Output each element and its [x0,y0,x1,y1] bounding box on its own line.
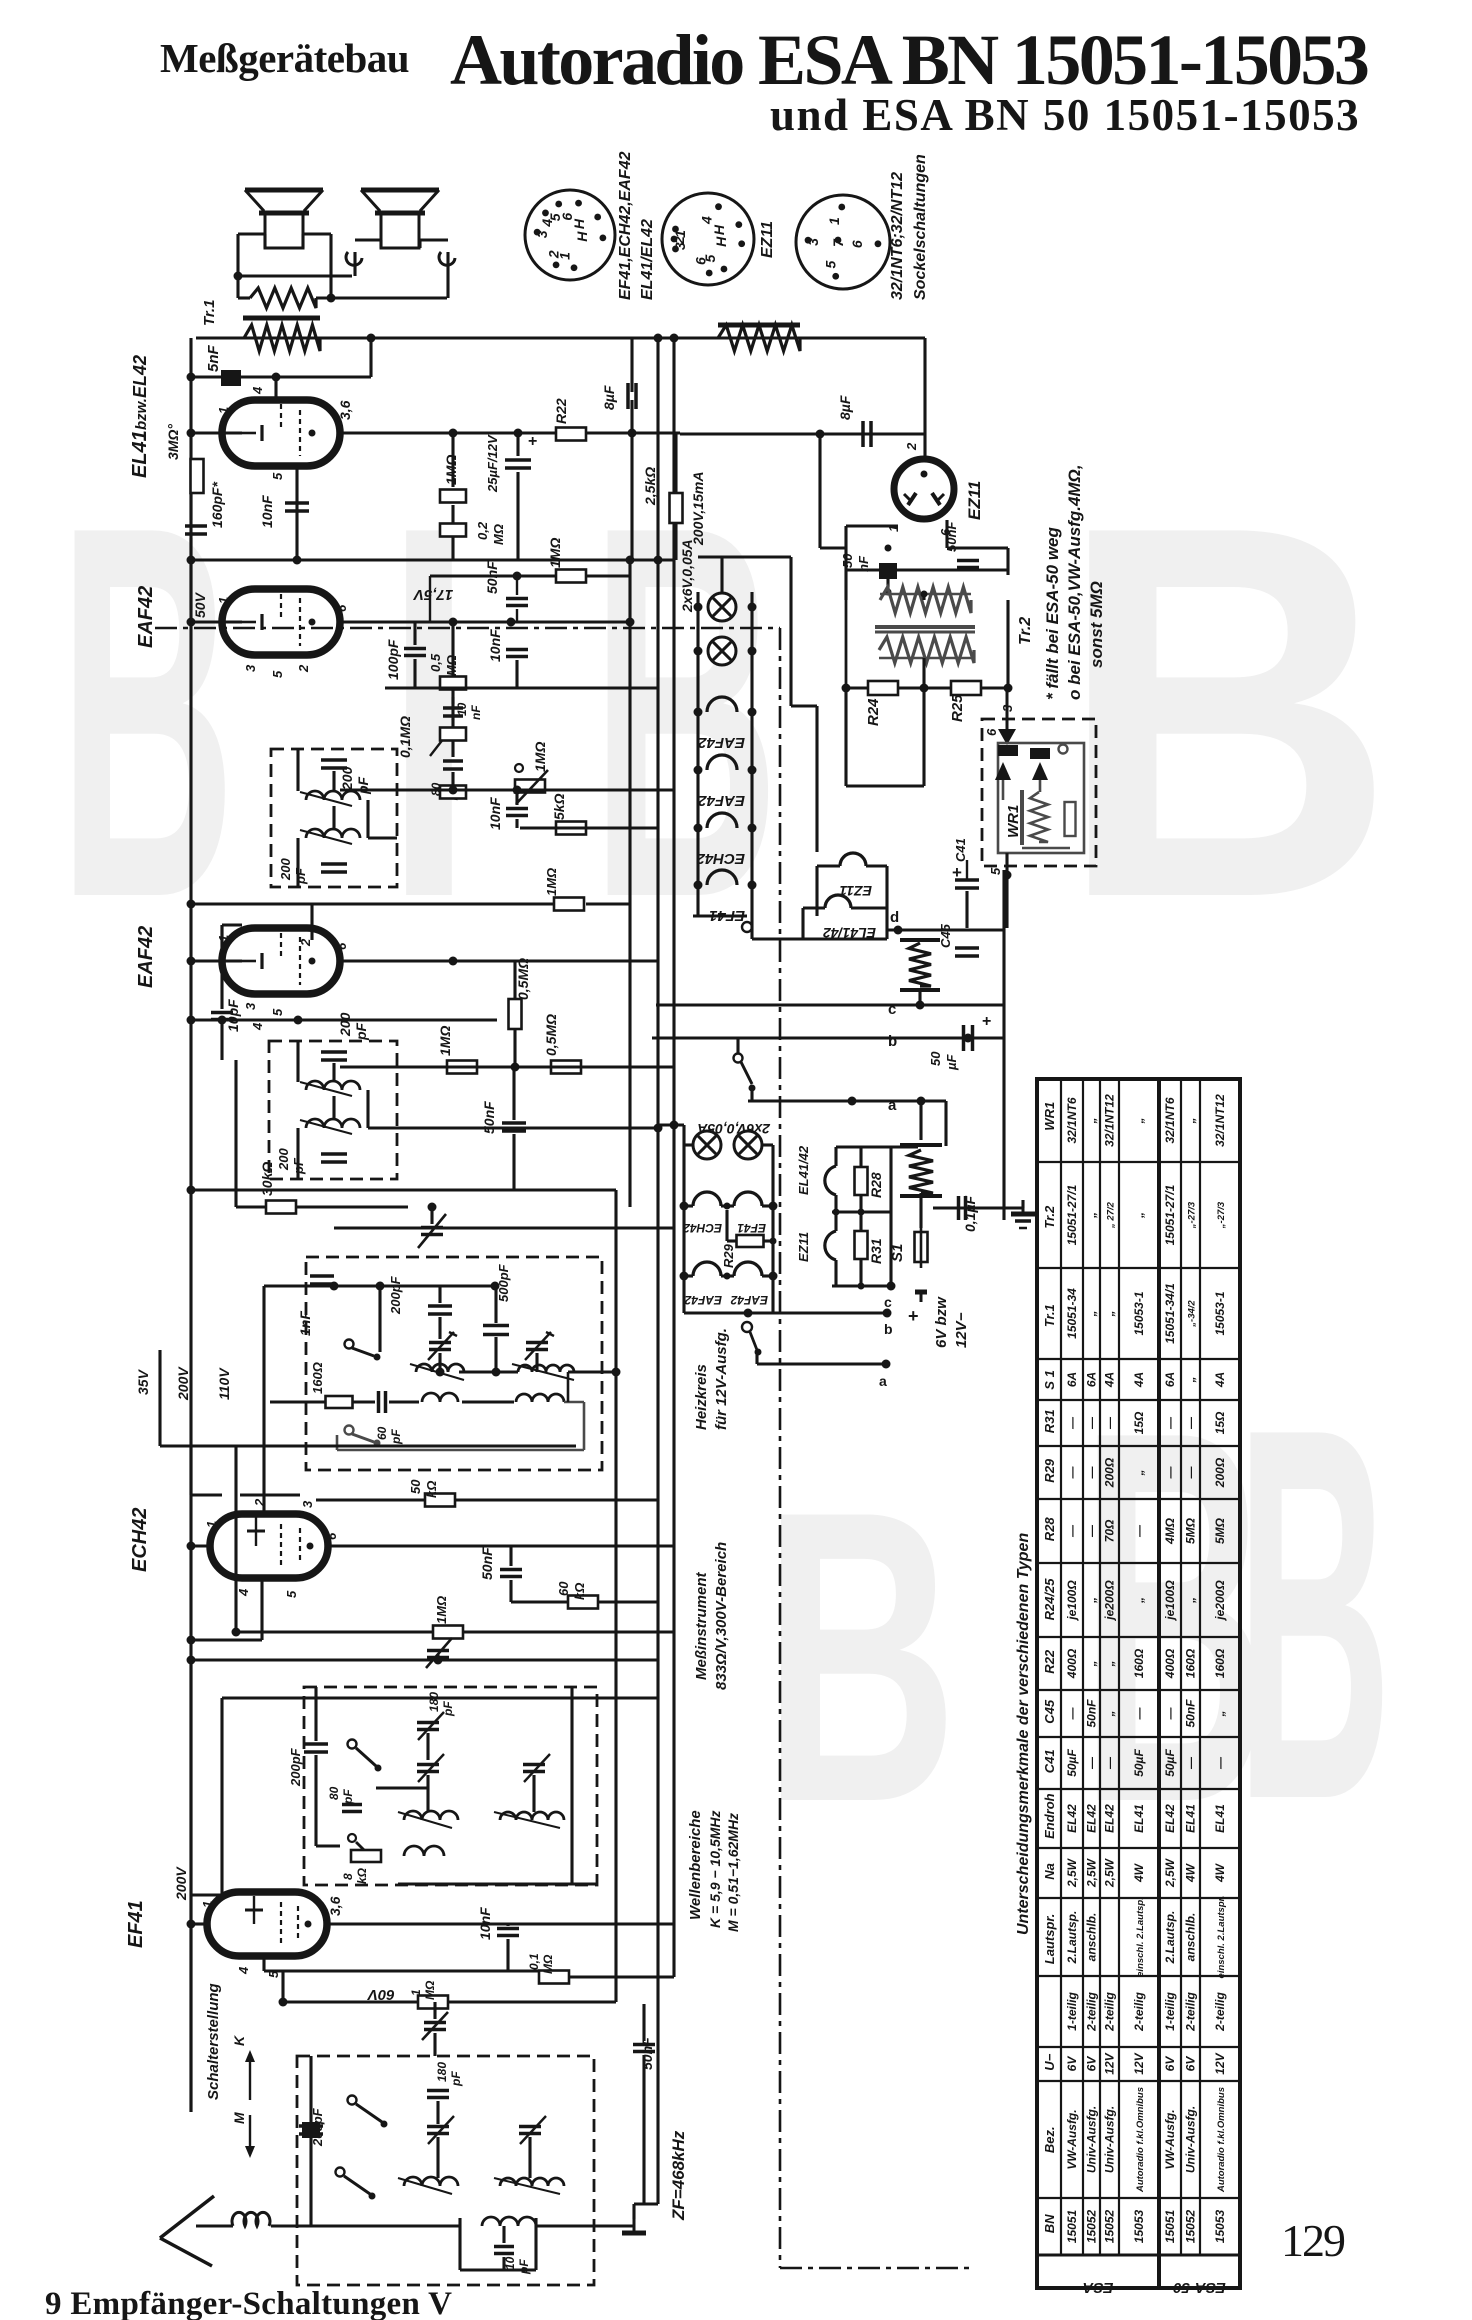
svg-text:* fällt bei ESA-50 weg: * fällt bei ESA-50 weg [1043,527,1062,700]
svg-text:50µF: 50µF [1065,1749,1079,1777]
svg-text:60: 60 [375,1426,389,1440]
svg-text:50: 50 [928,1051,943,1066]
svg-text:7: 7 [830,238,846,247]
svg-text:„: „ [1085,1597,1099,1604]
svg-text:EL42: EL42 [1065,1804,1079,1833]
svg-text:5: 5 [270,472,285,480]
svg-text:70Ω: 70Ω [1103,1519,1117,1542]
svg-text:10nF: 10nF [487,629,503,662]
svg-text:6A: 6A [1085,1372,1099,1387]
svg-text:EAF42: EAF42 [684,1293,722,1307]
svg-text:„: „ [1103,1311,1117,1318]
svg-text:50nF: 50nF [481,1101,497,1134]
svg-text:0,1: 0,1 [527,1953,541,1970]
svg-text:B: B [763,1424,958,1888]
svg-text:4: 4 [236,1588,251,1597]
svg-text:und ESA BN 50 15051-15053: und ESA BN 50 15051-15053 [770,90,1360,140]
svg-text:„: „ [1184,1118,1198,1125]
svg-text:b: b [888,1033,897,1050]
svg-text:9 Empfänger-Schaltungen V: 9 Empfänger-Schaltungen V [45,2286,452,2320]
svg-text:—: — [1184,1416,1198,1430]
svg-text:—: — [1132,1707,1146,1721]
svg-text:1MΩ: 1MΩ [547,538,563,568]
svg-text:„: „ [1103,1661,1117,1668]
svg-text:3: 3 [243,1002,258,1010]
svg-text:6: 6 [984,728,999,736]
svg-text:15051: 15051 [1065,2209,1079,2243]
svg-text:2: 2 [252,1498,267,1507]
svg-text:R22: R22 [553,398,569,424]
svg-text:—: — [1132,1524,1146,1538]
svg-text:—: — [1085,1416,1099,1430]
svg-text:4: 4 [698,216,714,225]
svg-text:pF: pF [293,867,308,885]
svg-text:BN: BN [1042,2214,1057,2233]
svg-text:15053-1: 15053-1 [1213,1291,1227,1335]
svg-text:4W: 4W [1132,1862,1146,1883]
svg-text:25µF/12V: 25µF/12V [485,434,500,493]
svg-text:180: 180 [427,1692,441,1712]
svg-text:400Ω: 400Ω [1163,1648,1177,1679]
svg-text:R29: R29 [1042,1458,1057,1483]
svg-text:4A: 4A [1132,1372,1146,1388]
svg-text:12V: 12V [1213,2052,1227,2074]
svg-text:15053: 15053 [1132,2209,1146,2243]
svg-text:3: 3 [672,242,688,250]
svg-text:—: — [1085,1466,1099,1480]
svg-text:15051: 15051 [1163,2209,1177,2243]
svg-text:kΩ: kΩ [572,1583,587,1600]
svg-text:2: 2 [296,664,311,673]
svg-text:a: a [888,1097,897,1114]
svg-text:6: 6 [324,1532,339,1540]
svg-text:50µF: 50µF [1132,1749,1146,1777]
svg-text:50µF: 50µF [1163,1749,1177,1777]
svg-text:32/1NT6: 32/1NT6 [1163,1097,1177,1143]
svg-text:„: „ [1132,1597,1146,1604]
svg-text:80: 80 [327,1786,341,1800]
svg-text:4W: 4W [1213,1862,1227,1883]
svg-text:1: 1 [826,217,842,225]
svg-text:32/1NT12: 32/1NT12 [1213,1094,1227,1147]
svg-text:MΩ: MΩ [423,1980,437,2000]
svg-text:1MΩ: 1MΩ [434,1596,449,1624]
svg-text:1MΩ: 1MΩ [532,742,548,772]
svg-text:6A: 6A [1163,1372,1177,1387]
svg-text:35V: 35V [135,1368,151,1395]
svg-text:200: 200 [276,1148,291,1171]
svg-text:EAF42: EAF42 [730,1293,768,1307]
svg-text:—: — [1163,1416,1177,1430]
svg-text:EL41: EL41 [1184,1804,1198,1833]
svg-text:5: 5 [270,670,285,678]
svg-text:15053-1: 15053-1 [1132,1291,1146,1335]
svg-text:pF: pF [389,1429,403,1445]
svg-text:Tr.2: Tr.2 [1042,1205,1057,1229]
svg-text:2-teilig: 2-teilig [1184,1991,1198,2031]
svg-text:400Ω: 400Ω [1065,1648,1079,1679]
svg-text:pF: pF [353,1022,369,1041]
svg-text:15051-27/1: 15051-27/1 [1163,1184,1177,1245]
svg-text:1: 1 [204,1521,219,1528]
svg-text:B: B [1058,416,1395,1008]
svg-text:sonst 5MΩ: sonst 5MΩ [1087,581,1106,668]
svg-text:10nF: 10nF [487,797,503,830]
svg-text:1: 1 [409,1989,423,1996]
svg-text:200V,15mA: 200V,15mA [690,472,706,546]
svg-text:Univ-Ausfg.: Univ-Ausfg. [1103,2106,1117,2173]
svg-text:6: 6 [693,257,709,265]
svg-text:12V: 12V [1132,2052,1146,2074]
svg-text:EAF42: EAF42 [135,926,157,988]
svg-text:R31: R31 [1042,1409,1057,1433]
svg-text:einschl. 2.Lautsp.: einschl. 2.Lautsp. [1135,1897,1146,1977]
svg-text:200pF: 200pF [388,1275,403,1315]
svg-text:„: „ [1132,1118,1146,1125]
svg-text:„: „ [1085,1311,1099,1318]
svg-text:Meßinstrument: Meßinstrument [693,1571,710,1680]
svg-text:3: 3 [243,664,258,672]
svg-text:2: 2 [546,250,562,259]
svg-text:C41: C41 [1042,1749,1057,1773]
svg-text:32/1NT6: 32/1NT6 [1065,1097,1079,1143]
svg-text:—: — [1103,1756,1117,1770]
svg-text:H: H [713,236,729,247]
svg-text:10: 10 [455,702,469,716]
svg-text:Autoradio ESA BN 15051-15053: Autoradio ESA BN 15051-15053 [450,20,1368,100]
svg-text:4MΩ: 4MΩ [1163,1517,1177,1545]
svg-text:6: 6 [849,240,865,248]
svg-text:Tr.1: Tr.1 [1042,1304,1057,1327]
svg-text:15Ω: 15Ω [1213,1411,1227,1434]
svg-text:1-teilig: 1-teilig [1163,1991,1177,2030]
svg-text:C41: C41 [953,838,968,862]
svg-text:b: b [884,1321,893,1337]
svg-text:Lautspr.: Lautspr. [1042,1914,1057,1965]
svg-text:—: — [1163,1707,1177,1721]
svg-text:MΩ: MΩ [541,1954,555,1974]
svg-text:S1: S1 [889,1244,906,1262]
svg-text:WR1: WR1 [1042,1102,1057,1131]
svg-text:2.Lautsp.: 2.Lautsp. [1065,1911,1079,1965]
svg-text:12V: 12V [1103,2052,1117,2074]
svg-text:M = 0,51−1,62MHz: M = 0,51−1,62MHz [725,1813,741,1932]
svg-text:„: „ [1103,1711,1117,1718]
svg-text:200V: 200V [175,1366,191,1401]
svg-text:0,5MΩ: 0,5MΩ [515,958,531,1000]
svg-text:—: — [1085,1524,1099,1538]
svg-text:2,5W: 2,5W [1065,1857,1079,1888]
svg-text:MΩ: MΩ [491,524,506,545]
svg-text:8µF: 8µF [837,395,853,420]
svg-text:K: K [231,2035,247,2046]
svg-text:EL41/42: EL41/42 [823,925,876,941]
svg-text:200: 200 [339,766,355,791]
svg-text:6V: 6V [1065,2056,1079,2072]
svg-text:3MΩ°: 3MΩ° [165,424,181,460]
svg-text:15051-34: 15051-34 [1065,1288,1079,1339]
svg-text:„: „ [1184,1597,1198,1604]
svg-text:U−: U− [1042,2053,1057,2070]
svg-text:0,5: 0,5 [428,653,443,672]
svg-text:„-27/3: „-27/3 [1216,1201,1227,1229]
svg-text:„: „ [1132,1212,1146,1219]
svg-text:ESA-50: ESA-50 [1173,2279,1226,2296]
svg-text:2x6V,0,05A: 2x6V,0,05A [679,539,695,613]
svg-text:1: 1 [200,1901,215,1908]
svg-text:160Ω: 160Ω [1184,1648,1198,1678]
svg-text:50nF: 50nF [1085,1699,1099,1728]
svg-text:50: 50 [408,1479,423,1494]
svg-text:Univ-Ausfg.: Univ-Ausfg. [1085,2106,1099,2173]
svg-text:o bei ESA-50,VW-Ausfg.4MΩ,: o bei ESA-50,VW-Ausfg.4MΩ, [1065,464,1084,700]
svg-text:0,5MΩ: 0,5MΩ [543,1014,559,1056]
svg-text:einschl. 2.Lautspr.: einschl. 2.Lautspr. [1216,1896,1227,1979]
svg-text:µF: µF [944,1054,959,1071]
svg-text:500pF: 500pF [496,1263,511,1302]
svg-text:Na: Na [1042,1863,1057,1880]
svg-text:—: — [1065,1707,1079,1721]
svg-text:3,6: 3,6 [337,400,353,420]
svg-text:c: c [884,1294,892,1310]
svg-text:Bez.: Bez. [1042,2126,1057,2153]
svg-text:EL42: EL42 [1085,1804,1099,1833]
svg-text:200: 200 [278,858,293,881]
svg-text:nF: nF [856,555,871,572]
svg-text:10nF: 10nF [477,1907,493,1940]
svg-text:6A: 6A [1065,1372,1079,1387]
svg-text:12V−: 12V− [953,1312,970,1348]
svg-text:+: + [908,1306,919,1326]
svg-text:EL41/EL42: EL41/EL42 [639,219,656,300]
svg-text:„-34/2: „-34/2 [1187,1300,1198,1328]
svg-text:ESA: ESA [1083,2279,1114,2296]
svg-text:—: — [1065,1524,1079,1538]
svg-text:100pF: 100pF [385,639,401,680]
svg-text:50nF: 50nF [479,1547,495,1580]
svg-text:R24: R24 [865,698,882,726]
svg-text:H: H [571,218,587,229]
svg-text:—: — [1085,1756,1099,1770]
svg-text:„: „ [1213,1711,1227,1718]
svg-text:5MΩ: 5MΩ [1184,1517,1198,1544]
svg-text:„: „ [1085,1661,1099,1668]
svg-text:60: 60 [556,1581,571,1596]
svg-text:„: „ [1184,1377,1198,1384]
svg-text:6: 6 [334,942,349,950]
svg-text:EL41: EL41 [1132,1804,1146,1833]
svg-text:10nF: 10nF [259,495,275,528]
svg-text:50V: 50V [192,591,208,618]
svg-text:180: 180 [435,2062,449,2082]
svg-text:Unterscheidungsmerkmale der ve: Unterscheidungsmerkmale der verschiedene… [1015,1533,1032,1935]
svg-text:160Ω: 160Ω [1213,1648,1227,1678]
svg-text:1-teilig: 1-teilig [1065,1991,1079,2030]
svg-text:R28: R28 [868,1172,884,1198]
svg-text:110V: 110V [216,1367,232,1400]
svg-text:EL41/42: EL41/42 [796,1145,811,1195]
svg-text:a: a [879,1373,887,1389]
svg-text:Heizkreis: Heizkreis [693,1364,710,1430]
svg-text:0,1MΩ: 0,1MΩ [397,716,413,758]
svg-text:833Ω/V,300V-Bereich: 833Ω/V,300V-Bereich [713,1542,730,1690]
svg-text:c: c [888,1001,896,1018]
svg-text:„: „ [1085,1118,1099,1125]
svg-text:R29: R29 [721,1243,736,1268]
svg-text:WR1: WR1 [1005,805,1022,838]
svg-text:ECH42: ECH42 [696,850,745,867]
svg-text:H: H [574,231,590,242]
svg-text:R25: R25 [949,694,966,722]
svg-text:je100Ω: je100Ω [1163,1580,1177,1622]
svg-text:5kΩ: 5kΩ [551,793,567,820]
svg-text:17,5V: 17,5V [412,586,453,603]
svg-text:je200Ω: je200Ω [1213,1580,1227,1622]
svg-text:EAF42: EAF42 [135,586,157,648]
svg-text:—: — [1184,1466,1198,1480]
svg-text:6V bzw: 6V bzw [933,1296,950,1348]
svg-text:50nF: 50nF [639,2037,655,2070]
svg-text:15053: 15053 [1213,2209,1227,2243]
svg-text:200Ω: 200Ω [1103,1457,1117,1488]
svg-text:200: 200 [337,1012,353,1037]
svg-text:2,5kΩ: 2,5kΩ [642,467,658,506]
svg-text:3: 3 [1000,704,1015,712]
svg-text:Autoradio f.kl.Omnibus: Autoradio f.kl.Omnibus [1216,2087,1227,2193]
svg-text:5: 5 [284,1590,299,1598]
svg-text:Endroh: Endroh [1042,1793,1057,1839]
svg-text:„ 27/2: „ 27/2 [1106,1201,1117,1229]
svg-text:160Ω: 160Ω [310,1362,325,1394]
svg-text:für 12V-Ausfg.: für 12V-Ausfg. [713,1328,730,1430]
svg-text:50nF: 50nF [1184,1699,1198,1728]
svg-text:—: — [1065,1466,1079,1480]
svg-text:EL42: EL42 [130,355,150,398]
svg-text:8: 8 [341,1873,355,1880]
svg-text:ECH42: ECH42 [129,1508,151,1572]
svg-text:EF41: EF41 [737,1221,766,1235]
svg-text:50: 50 [840,553,855,568]
svg-text:50nF: 50nF [944,521,959,552]
svg-text:0,1µF: 0,1µF [962,1195,978,1232]
svg-text:2-teilig: 2-teilig [1085,1991,1099,2031]
svg-text:—: — [1103,1416,1117,1430]
svg-text:—: — [1163,1466,1177,1480]
svg-text:„-27/3: „-27/3 [1187,1201,1198,1229]
svg-text:160pF*: 160pF* [209,482,225,528]
svg-text:H: H [711,224,727,235]
svg-text:2.Lautsp.: 2.Lautsp. [1163,1911,1177,1965]
svg-text:Univ-Ausfg.: Univ-Ausfg. [1184,2106,1198,2173]
svg-text:anschlb.: anschlb. [1184,1913,1198,1962]
svg-text:je200Ω: je200Ω [1103,1580,1117,1622]
svg-text:B: B [1236,1318,1392,1910]
svg-text:S 1: S 1 [1042,1370,1057,1390]
svg-text:—: — [1184,1756,1198,1770]
svg-text:5nF: 5nF [205,344,222,372]
svg-text:200pF: 200pF [288,1747,303,1787]
svg-text:200Ω: 200Ω [1213,1457,1227,1488]
svg-text:129: 129 [1281,2215,1345,2266]
svg-text:2-teilig: 2-teilig [1213,1991,1227,2031]
svg-text:C45: C45 [1042,1699,1057,1724]
svg-text:EL42: EL42 [1163,1804,1177,1833]
svg-text:2,5W: 2,5W [1163,1857,1177,1888]
svg-text:4: 4 [250,386,265,395]
svg-text:1: 1 [216,407,231,414]
svg-text:ECH42: ECH42 [683,1221,722,1235]
svg-text:+: + [528,433,537,450]
svg-text:+: + [982,1013,991,1030]
svg-text:R28: R28 [1042,1517,1057,1542]
svg-text:15051-34/1: 15051-34/1 [1163,1283,1177,1344]
svg-text:kΩ: kΩ [355,1867,369,1884]
svg-text:1nF: 1nF [297,1311,313,1336]
svg-text:15052: 15052 [1103,2209,1117,2243]
svg-text:Wellenbereiche: Wellenbereiche [687,1810,704,1920]
svg-text:6: 6 [334,604,349,612]
svg-text:3: 3 [805,238,821,246]
svg-text:R24/25: R24/25 [1042,1578,1057,1621]
svg-text:„: „ [1085,1212,1099,1219]
svg-text:ZF=468kHz: ZF=468kHz [669,2130,688,2221]
svg-text:15052: 15052 [1085,2209,1099,2243]
svg-text:nF: nF [469,705,483,720]
svg-text:Schalterstellung: Schalterstellung [205,1983,222,2100]
svg-text:1MΩ: 1MΩ [437,1026,453,1056]
svg-text:Tr.1: Tr.1 [201,300,218,326]
svg-text:2,5W: 2,5W [1103,1857,1117,1888]
svg-text:„: „ [1132,1470,1146,1477]
svg-text:bzw.: bzw. [133,398,150,430]
svg-text:EF41,ECH42,EAF42: EF41,ECH42,EAF42 [617,151,634,300]
svg-text:3: 3 [300,1500,315,1508]
svg-text:VW-Ausfg.: VW-Ausfg. [1065,2109,1079,2169]
svg-text:2-teilig: 2-teilig [1103,1991,1117,2031]
svg-text:3: 3 [534,230,550,238]
svg-text:Sockelschaltungen: Sockelschaltungen [912,154,929,300]
svg-text:d: d [890,909,899,926]
svg-text:1MΩ: 1MΩ [544,868,559,896]
svg-text:EL42: EL42 [1103,1804,1117,1833]
svg-text:pF: pF [449,2071,463,2087]
svg-text:1: 1 [216,597,231,604]
svg-text:R31: R31 [868,1238,884,1264]
svg-text:32/1NT12: 32/1NT12 [1103,1094,1117,1147]
svg-text:4W: 4W [1184,1862,1198,1883]
svg-text:5: 5 [822,261,838,269]
svg-text:15052: 15052 [1184,2209,1198,2243]
svg-text:pF: pF [517,2259,531,2275]
svg-text:160Ω: 160Ω [1132,1648,1146,1678]
svg-text:pF: pF [341,1789,355,1805]
svg-text:10pF: 10pF [225,999,241,1032]
svg-text:—: — [1213,1756,1227,1770]
svg-text:R22: R22 [1042,1649,1057,1674]
svg-text:6V: 6V [1184,2056,1198,2072]
svg-text:EZ11: EZ11 [796,1232,811,1262]
svg-text:EF41: EF41 [125,1900,147,1948]
svg-text:Tr.2: Tr.2 [1017,617,1034,645]
svg-text:EL41: EL41 [1213,1804,1227,1833]
svg-text:EAF42: EAF42 [698,792,745,809]
svg-text:Autoradio f.kl.Omnibus: Autoradio f.kl.Omnibus [1135,2087,1146,2193]
svg-text:—: — [1065,1416,1079,1430]
svg-text:Meßgerätebau: Meßgerätebau [160,35,409,81]
svg-text:4: 4 [250,1022,265,1031]
svg-text:1MΩ: 1MΩ [443,455,459,485]
svg-text:5: 5 [270,1008,285,1016]
